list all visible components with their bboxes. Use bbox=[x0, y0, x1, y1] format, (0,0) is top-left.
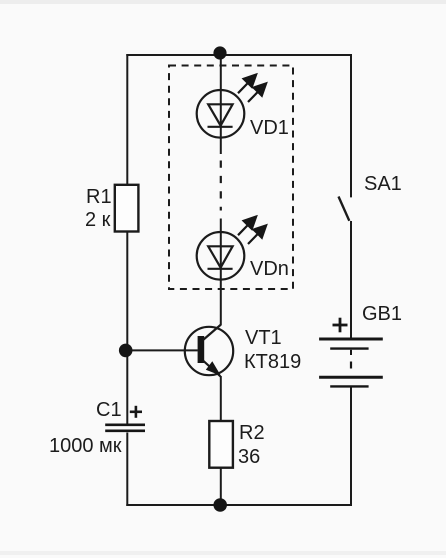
wire right lower bbox=[350, 387, 352, 507]
wire LED chain top through VD1 bbox=[220, 55, 222, 154]
resistor R2 bbox=[209, 421, 233, 468]
LED VDn bbox=[197, 232, 245, 280]
wire right mid bbox=[350, 221, 352, 339]
wire bottom bbox=[126, 504, 351, 506]
svg-text:R1: R1 bbox=[86, 186, 112, 208]
svg-text:КТ819: КТ819 bbox=[244, 351, 301, 373]
LED VD1 emission arrows bbox=[238, 75, 266, 102]
wire through VDn to collector bbox=[220, 219, 222, 326]
dashed enclosure box bbox=[169, 66, 293, 290]
LED VD1 bbox=[197, 90, 245, 138]
svg-text:C1: C1 bbox=[96, 399, 122, 421]
VT1 emitter lead bbox=[203, 361, 221, 377]
VT1 base bar bbox=[198, 336, 205, 363]
wire left upper bbox=[126, 54, 128, 186]
svg-text:1000 мк: 1000 мк bbox=[49, 435, 122, 457]
svg-text:VD1: VD1 bbox=[250, 117, 289, 139]
C1 plus sign bbox=[130, 406, 142, 418]
VT1 collector lead bbox=[203, 325, 221, 341]
resistor R1 bbox=[115, 185, 139, 232]
switch SA1 bbox=[339, 197, 350, 221]
wire emitter to R2 bbox=[220, 376, 222, 422]
battery GB1 bbox=[319, 339, 383, 386]
transistor VT1 bbox=[185, 327, 233, 375]
svg-text:2 к: 2 к bbox=[85, 209, 111, 231]
wire left lower bbox=[126, 231, 128, 425]
node bottom junction bbox=[213, 498, 227, 512]
svg-text:VT1: VT1 bbox=[245, 327, 282, 349]
svg-text:SA1: SA1 bbox=[364, 173, 402, 195]
wire below C1 bbox=[126, 433, 128, 507]
svg-text:VDn: VDn bbox=[250, 258, 289, 280]
svg-text:GB1: GB1 bbox=[362, 303, 402, 325]
wire VT1 base bbox=[126, 349, 198, 351]
wire dashed between VD1 and VDn bbox=[220, 161, 222, 211]
node top junction bbox=[213, 46, 226, 59]
svg-text:36: 36 bbox=[238, 446, 260, 468]
wire right upper bbox=[350, 54, 352, 197]
wire top bbox=[126, 54, 351, 56]
svg-text:R2: R2 bbox=[239, 422, 265, 444]
wire R2 to bottom bbox=[220, 468, 222, 506]
node base junction bbox=[119, 344, 133, 358]
battery plus sign bbox=[333, 318, 348, 333]
capacitor C1 bbox=[105, 425, 145, 431]
VT1 emitter arrowhead bbox=[206, 361, 221, 375]
LED VDn emission arrows bbox=[238, 217, 266, 244]
